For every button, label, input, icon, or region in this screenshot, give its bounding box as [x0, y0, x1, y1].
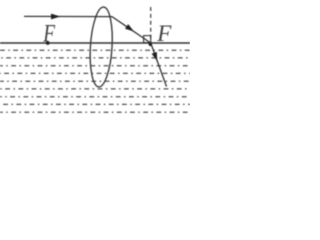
incident ray arrowhead [51, 14, 61, 20]
refracted ray in water [151, 43, 167, 87]
right-angle square marker [144, 36, 151, 43]
water surface line [0, 42, 190, 44]
focal point dot F (left) [46, 41, 50, 45]
refracted ray in air (lens to surface) [112, 17, 151, 43]
water dash-dot hatching rows [0, 50, 190, 112]
svg-text:F: F [42, 21, 55, 48]
refracted ray arrowhead [125, 24, 134, 31]
vertical dashed normal line [150, 7, 152, 43]
focal point dot (right, at ray crossing) [149, 43, 152, 46]
underwater ray arrowhead [152, 52, 158, 61]
svg-text:F: F [156, 21, 172, 46]
incident ray (horizontal) [24, 15, 112, 17]
lens (ellipse) [88, 6, 114, 87]
